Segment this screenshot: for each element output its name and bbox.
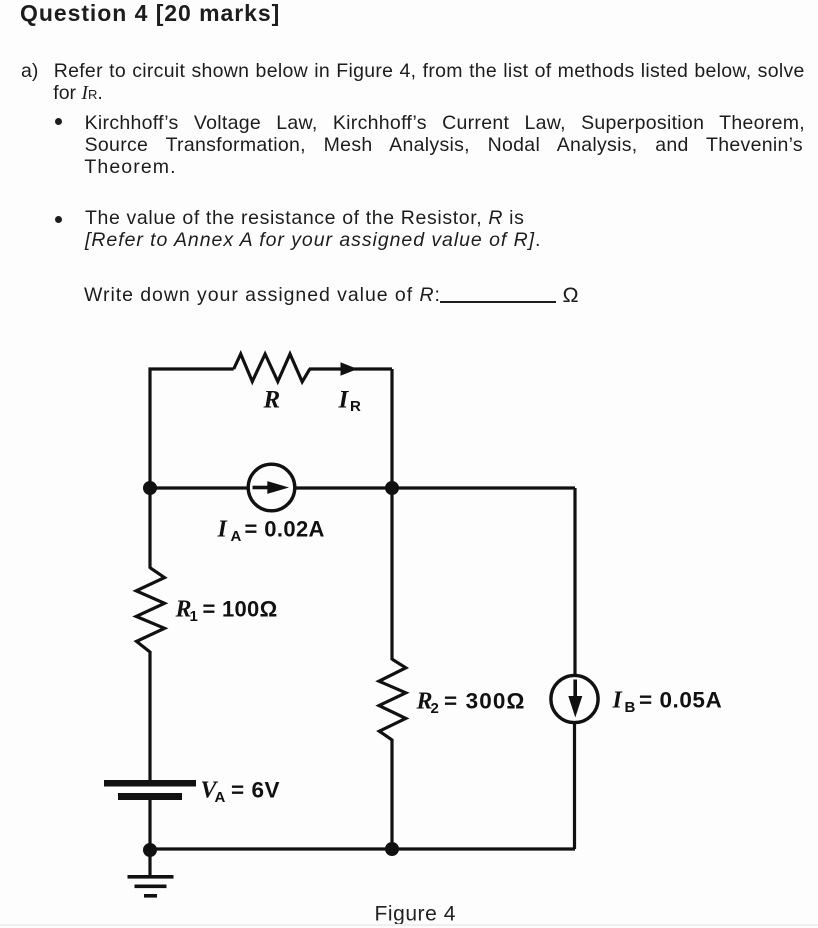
bullet 2 dot — [55, 216, 62, 223]
resistor R — [234, 354, 310, 382]
svg-text:I: I — [338, 387, 350, 414]
arrow inside IA — [253, 486, 270, 490]
ground — [128, 875, 174, 879]
current source U-IB circle — [551, 675, 598, 722]
svg-text:I: I — [612, 688, 624, 714]
node A dot (left-middle junction) — [143, 481, 157, 495]
write down line — [84, 284, 441, 306]
title — [20, 0, 280, 26]
bottom page edge strip — [0, 924, 818, 926]
svg-text:= 0.02A: = 0.02A — [245, 517, 325, 542]
wire middle vertical lower — [390, 739, 393, 849]
wire middle horizontal right — [293, 486, 575, 489]
svg-text:Figure 4: Figure 4 — [375, 903, 456, 926]
battery VA plates — [104, 780, 196, 787]
svg-text:= 300Ω: = 300Ω — [444, 689, 526, 714]
paragraph a) line 1 (justified) — [54, 60, 805, 82]
wire battery to ground — [148, 800, 151, 875]
svg-text:A: A — [231, 528, 242, 545]
bullet 2 line 2 — [85, 229, 541, 251]
svg-text:B: B — [625, 699, 636, 716]
bullet 1 line 3 — [84, 156, 176, 178]
wire bottom horizontal — [150, 847, 575, 850]
bullet 1 line 2 — [85, 134, 803, 156]
arrow inside IB — [573, 680, 577, 698]
wire left vertical between R1 and battery — [148, 651, 151, 781]
paragraph a) line 2 — [53, 82, 103, 106]
wire right vertical lower — [573, 721, 576, 849]
node D dot (bottom-middle junction) — [385, 842, 399, 856]
bullet 1 line 1 — [85, 112, 805, 134]
bullet 1 dot — [55, 118, 62, 125]
node B dot (middle junction) — [385, 481, 399, 495]
svg-text:A: A — [215, 789, 226, 806]
wire top-right segment — [309, 367, 392, 370]
svg-text:= 100Ω: = 100Ω — [203, 597, 278, 622]
arrow IR head — [341, 362, 358, 376]
resistor R2 — [379, 659, 406, 740]
svg-text:R: R — [350, 398, 361, 415]
svg-text:2: 2 — [431, 700, 439, 717]
svg-text:1: 1 — [190, 608, 198, 625]
bullet 2 line 1 — [85, 207, 525, 229]
resistor R1 — [136, 568, 164, 652]
svg-text:= 0.05A: = 0.05A — [639, 688, 722, 713]
svg-text:I: I — [217, 517, 229, 543]
wire right vertical upper — [573, 488, 576, 677]
paragraph a) label — [21, 60, 38, 82]
wire middle vertical upper (node B down to R2 top) — [390, 369, 393, 660]
svg-text:R: R — [263, 387, 281, 414]
wire top-left corner and left vertical upper segment — [150, 369, 234, 569]
current source U-IA circle — [248, 464, 295, 511]
wire middle horizontal left — [150, 486, 250, 489]
node C dot (bottom-left junction) — [143, 843, 157, 857]
svg-text:= 6V: = 6V — [231, 778, 280, 803]
